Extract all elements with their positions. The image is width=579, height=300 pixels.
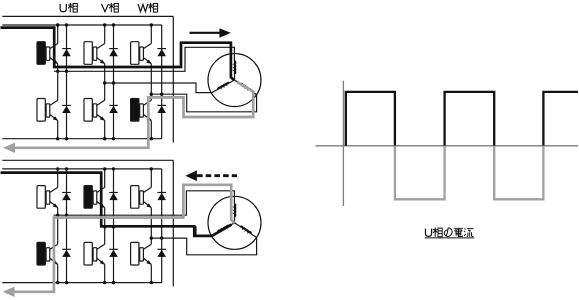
transistor top-diagram W-phase upper IGBT	[131, 42, 152, 65]
node top-diagram V DC- rail junctions	[103, 137, 106, 140]
wire bottom-diagram V-phase lower leg	[104, 227, 106, 244]
diode top-diagram U-phase lower freewheel diode	[62, 105, 71, 113]
node bottom-diagram W DC+ rail junctions	[150, 167, 153, 170]
wire top-diagram thick black active current path (DC+ through U upper IGBT to motor)	[1, 28, 235, 81]
node top-diagram U DC- rail junctions	[56, 137, 59, 140]
wire top-diagram V-phase upper leg	[104, 25, 106, 44]
inductor bottom-diagram U winding (top)	[234, 204, 236, 223]
node top-diagram W DC+ rail junctions	[150, 23, 153, 26]
inductor bottom-diagram W winding (right)	[235, 223, 257, 238]
wire bottom-diagram W-phase lower leg	[150, 238, 152, 244]
label W-phase heading	[138, 4, 148, 12]
node top-diagram W DC- rail junctions	[150, 137, 153, 140]
wire top-diagram V midpoint to motor	[105, 83, 212, 93]
curve waveform U-phase current negative half-cycles (gray)	[395, 146, 544, 200]
wire bottom-diagram V-phase upper leg	[104, 169, 106, 188]
transistor top-diagram V-phase lower IGBT	[84, 99, 105, 122]
transistor bottom-diagram W-phase upper IGBT	[131, 186, 152, 209]
node bottom-diagram W midpoint junctions	[150, 236, 153, 239]
arrow top-diagram solid current-direction arrow (points right)	[190, 32, 221, 34]
wire top-diagram W midpoint to motor	[151, 94, 256, 112]
wire top-diagram U-phase upper leg	[57, 25, 59, 44]
diode top-diagram U-phase upper freewheel diode	[62, 49, 71, 57]
diode bottom-diagram U-phase lower freewheel diode	[62, 249, 71, 257]
wire top-diagram U midpoint to motor	[54, 47, 234, 71]
node top-diagram V DC+ rail junctions	[103, 23, 106, 26]
wire bottom-diagram DC frame top line	[2, 159, 173, 161]
axis waveform horizontal zero axis	[315, 145, 578, 147]
wire bottom-diagram U midpoint to motor	[54, 191, 235, 215]
diode top-diagram V-phase lower freewheel diode	[109, 105, 118, 113]
wire bottom-diagram U-phase upper leg	[57, 169, 59, 188]
node bottom-diagram V midpoint junctions	[103, 225, 106, 228]
wire bottom-diagram V midpoint to motor	[105, 227, 212, 236]
node top-diagram V midpoint junctions	[103, 81, 106, 84]
axis waveform vertical axis	[342, 81, 344, 206]
transistor top-diagram W-phase lower IGBT	[131, 99, 152, 122]
arrow bottom-diagram gray return arrowhead (points left)	[3, 287, 15, 297]
label V-phase heading	[102, 4, 109, 12]
wire bottom-diagram W-phase upper leg	[150, 169, 152, 188]
wire top-diagram W-phase diode leg / rail end	[161, 25, 163, 139]
motor bottom-diagram stator circle	[208, 196, 261, 249]
node top-diagram U midpoint junctions	[56, 70, 59, 73]
diode bottom-diagram V-phase lower freewheel diode	[109, 249, 118, 257]
node bottom-diagram V DC- rail junctions	[103, 281, 106, 284]
transistor bottom-diagram W-phase lower IGBT	[131, 242, 152, 265]
label U-phase heading	[60, 4, 66, 12]
node bottom-diagram U DC+ rail junctions	[56, 167, 59, 170]
wire bottom-diagram W midpoint to motor	[151, 238, 256, 255]
transistor bottom-diagram V-phase upper IGBT	[84, 186, 105, 209]
wire top-diagram V-phase lower leg	[104, 83, 106, 100]
inductor bottom-diagram V winding (left)	[212, 223, 235, 236]
arrow top-diagram gray return arrowhead (points left)	[3, 143, 15, 153]
node bottom-diagram U DC- rail junctions	[56, 281, 59, 284]
inductor top-diagram U winding (top)	[234, 61, 236, 80]
diode bottom-diagram W-phase upper freewheel diode	[157, 193, 166, 201]
inductor top-diagram W winding (right)	[235, 80, 257, 95]
wire bottom-diagram thick black active current path (DC+ through V upper IGBT to motor V winding)	[1, 173, 232, 236]
label waveform caption U-phase current (underlined)	[425, 229, 431, 237]
node bottom-diagram W DC- rail junctions	[150, 281, 153, 284]
diode bottom-diagram W-phase lower freewheel diode	[157, 249, 166, 257]
wire top-diagram W-phase upper leg	[150, 25, 152, 44]
wire top-diagram W-phase lower leg	[150, 94, 152, 100]
diode top-diagram V-phase upper freewheel diode	[109, 49, 118, 57]
wire bottom-diagram U-phase lower leg	[57, 215, 59, 244]
curve waveform U-phase current positive half-cycles (black)	[346, 92, 578, 146]
wire top-diagram DC+ rail	[2, 24, 161, 26]
wire bottom-diagram DC- rail	[2, 282, 161, 284]
node bottom-diagram U midpoint junctions	[56, 214, 59, 217]
wire top-diagram U-phase lower leg	[57, 71, 59, 100]
node top-diagram W midpoint junctions	[150, 93, 153, 96]
wire top-diagram DC frame right vertical	[172, 16, 174, 142]
diode bottom-diagram V-phase upper freewheel diode	[109, 193, 118, 201]
transistor bottom-diagram V-phase lower IGBT	[84, 242, 105, 265]
arrow bottom-diagram dashed current-direction arrow (points left)	[197, 174, 237, 177]
wire top-diagram thick gray return path (motor W terminal through W lower IGBT to DC-)	[14, 82, 253, 148]
motor top-diagram stator circle	[208, 54, 261, 107]
transistor top-diagram V-phase upper IGBT	[84, 42, 105, 65]
diode top-diagram W-phase upper freewheel diode	[157, 49, 166, 57]
diode bottom-diagram U-phase upper freewheel diode	[62, 193, 71, 201]
wire top-diagram DC- rail	[2, 138, 161, 140]
transistor top-diagram U-phase upper IGBT	[37, 42, 58, 65]
wire top-diagram DC frame top line	[2, 15, 173, 17]
wire bottom-diagram DC+ rail	[2, 168, 161, 170]
wire bottom-diagram thick gray return path (motor U terminal through U lower IGBT to DC-)	[14, 185, 234, 292]
inductor top-diagram V winding (left)	[212, 80, 235, 93]
wire bottom-diagram W-phase diode leg / rail end	[161, 169, 163, 283]
node top-diagram U DC+ rail junctions	[56, 23, 59, 26]
node bottom-diagram V DC+ rail junctions	[103, 167, 106, 170]
transistor bottom-diagram U-phase lower IGBT	[37, 242, 58, 265]
transistor bottom-diagram U-phase upper IGBT	[37, 186, 58, 209]
diode top-diagram W-phase lower freewheel diode	[157, 105, 166, 113]
transistor top-diagram U-phase lower IGBT	[37, 99, 58, 122]
wire bottom-diagram DC frame right vertical	[172, 160, 174, 286]
